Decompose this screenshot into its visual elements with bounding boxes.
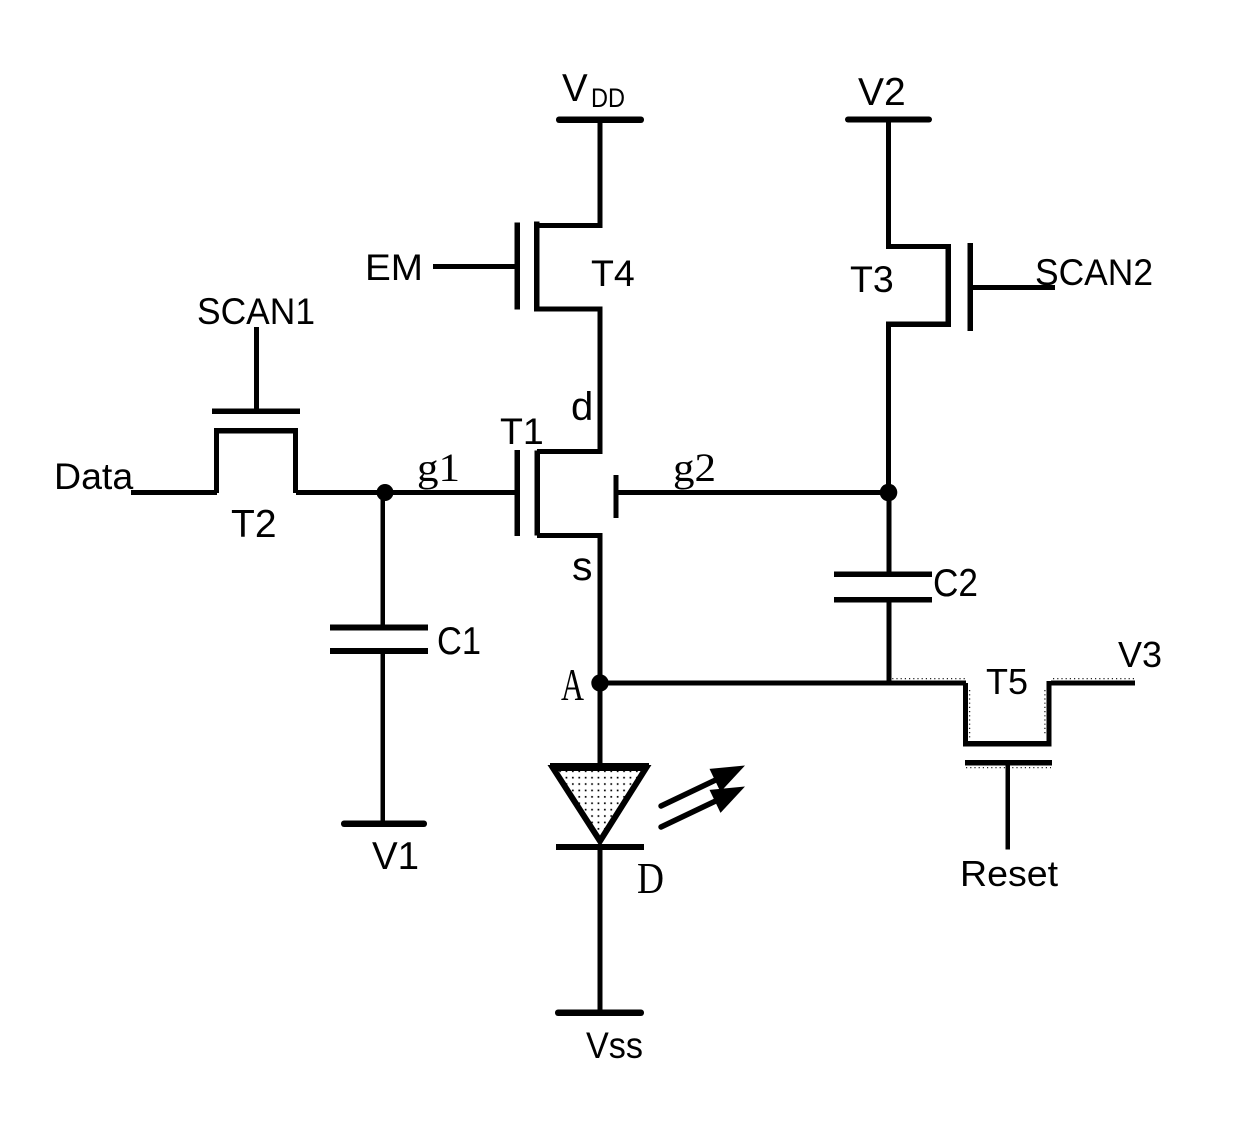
wire C2 to node A wire [887, 602, 892, 683]
transistor T3 gate lead [973, 285, 1055, 290]
wire T1 source to node A [598, 536, 603, 683]
transistor T1 second gate bar g2 [614, 475, 619, 518]
wire g2 lead [619, 490, 889, 495]
svg-text:d: d [571, 385, 593, 429]
wire T2 to node g1 [296, 490, 385, 495]
wire node g1 to C1 [381, 493, 386, 625]
transistor T1 source lead [537, 533, 603, 538]
light emission arrow 1 [661, 766, 745, 807]
node g2 junction dot [880, 484, 898, 502]
svg-text:A: A [561, 659, 584, 710]
LED D triangle [553, 768, 646, 841]
svg-text:g2: g2 [673, 445, 716, 490]
transistor T3 channel bar [946, 244, 952, 327]
svg-text:s: s [572, 543, 593, 589]
light emission arrow 2 [661, 787, 745, 828]
svg-text:V1: V1 [372, 835, 419, 878]
wire T4 source to T1 drain [598, 308, 603, 453]
transistor T2 left drop [214, 428, 219, 493]
capacitor C1 bottom plate [330, 648, 428, 654]
svg-text:C2: C2 [933, 562, 978, 605]
svg-text:Data: Data [54, 455, 133, 497]
wire T3 to node g2 [886, 327, 891, 493]
svg-text:T3: T3 [850, 258, 894, 300]
wire node A horizontal [600, 681, 966, 686]
capacitor C2 bottom plate [834, 597, 932, 603]
transistor T1 channel bar [535, 451, 541, 536]
svg-text:V: V [562, 67, 588, 110]
power rail V1 [341, 821, 427, 828]
transistor T4 source lead [536, 307, 603, 312]
transistor T2 right drop [293, 428, 298, 493]
svg-text:SCAN1: SCAN1 [197, 290, 315, 332]
node g1 junction dot [377, 484, 394, 501]
transistor T3 top lead [886, 244, 951, 249]
svg-text:SCAN2: SCAN2 [1035, 251, 1153, 293]
svg-text:DD: DD [591, 83, 625, 113]
transistor T4 channel bar [534, 222, 540, 312]
power rail VDD [556, 117, 644, 124]
svg-text:D: D [637, 854, 664, 903]
texture dots on node A wire near T5 [888, 679, 1134, 768]
wire SCAN1 to T2 gate [254, 327, 259, 411]
transistor T4 gate bar [515, 223, 521, 310]
transistor T2 gate bar [212, 409, 300, 415]
power rail V2 [845, 117, 932, 123]
svg-text:Reset: Reset [960, 853, 1058, 894]
svg-text:C1: C1 [437, 620, 481, 663]
svg-text:V2: V2 [858, 71, 906, 114]
wire T5 to V3 [1051, 681, 1135, 686]
transistor T2 channel bar [214, 428, 298, 434]
wire node g2 to C2 [887, 493, 892, 572]
svg-text:T4: T4 [591, 252, 635, 294]
svg-text:T1: T1 [500, 410, 544, 452]
transistor T5 left drop [963, 683, 968, 746]
capacitor C2 top plate [834, 572, 932, 578]
transistor T4 gate lead [433, 264, 517, 269]
wire LED cathode to Vss [598, 850, 603, 1010]
power rail Vss [555, 1010, 644, 1017]
svg-text:Vss: Vss [586, 1025, 643, 1066]
node A junction dot [591, 674, 608, 691]
transistor T5 gate bar [965, 760, 1052, 766]
wire Data lead [131, 490, 217, 495]
svg-text:T2: T2 [231, 503, 277, 546]
wire g1 lead [385, 490, 517, 495]
node VDD label [562, 67, 625, 113]
wire C1 to V1 rail [381, 654, 386, 822]
transistor T3 bottom lead [886, 322, 951, 328]
LED D cathode bar [556, 844, 644, 850]
wire V2 to T3 [886, 122, 891, 247]
wire VDD to T4 drain [598, 122, 603, 226]
capacitor C1 top plate [330, 625, 428, 631]
transistor T1 gate bar [515, 450, 521, 536]
transistor T1 drain lead [537, 449, 603, 454]
svg-text:T5: T5 [986, 661, 1028, 702]
svg-text:EM: EM [365, 246, 423, 288]
LED D anode bar [550, 763, 649, 769]
transistor T4 drain lead [536, 223, 603, 228]
wire node A to LED anode [598, 683, 603, 765]
transistor T3 gate bar [968, 243, 974, 331]
svg-text:g1: g1 [417, 445, 460, 490]
svg-text:V3: V3 [1118, 634, 1162, 675]
transistor T5 channel bar [963, 741, 1052, 747]
transistor T5 right vertical [1047, 681, 1052, 746]
transistor T5 gate lead [1006, 766, 1011, 850]
